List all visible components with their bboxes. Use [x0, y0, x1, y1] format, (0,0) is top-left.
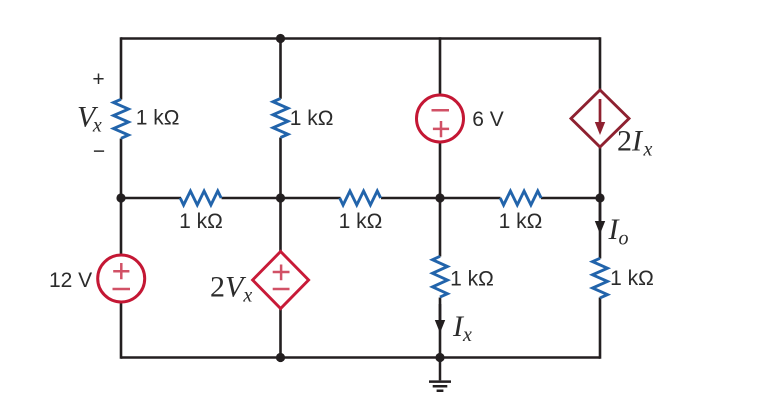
label: + inside 12 V source [113, 263, 129, 279]
wire: bottom rail [121, 356, 600, 359]
label: − inside 2Vx source [273, 288, 290, 291]
svg-text:1 kΩ: 1 kΩ [290, 107, 334, 130]
label: 1 kΩ (middle rail center resistor) [339, 210, 383, 233]
resistor 1 kΩ (middle rail center) [340, 191, 381, 205]
label: 1 kΩ (middle rail right resistor) [499, 210, 543, 233]
label: 1 kΩ (second top resistor) [290, 107, 334, 130]
label: 6 V [472, 108, 504, 131]
label: 1 kΩ (middle rail left resistor) [179, 210, 223, 233]
dependent voltage source 2Vx (diamond) [253, 252, 309, 309]
resistor 1 kΩ (Vx branch) [114, 99, 129, 138]
current arrow Ix [435, 304, 445, 333]
svg-text:1 kΩ: 1 kΩ [136, 107, 180, 130]
label: 1 kΩ (third branch lower resistor) [450, 268, 494, 291]
label: 2Ix [617, 125, 653, 161]
resistor 1 kΩ (middle rail left) [180, 191, 221, 205]
label: 1 kΩ (Vx branch resistor) [136, 107, 180, 130]
wire: left branch upper segments [120, 37, 123, 199]
label: Ix [452, 310, 472, 346]
label: − inside 12 V source [113, 288, 131, 291]
resistor 1 kΩ (middle rail right) [500, 191, 541, 205]
resistor 1 kΩ (right branch lower) [593, 258, 608, 298]
svg-text:1 kΩ: 1 kΩ [499, 210, 543, 233]
label: + polarity of Vx [92, 68, 104, 91]
voltage source 12 V (circle) [98, 255, 145, 302]
dependent current source 2Ix (diamond) [571, 90, 629, 147]
label: + inside 6 V source [433, 121, 449, 137]
svg-text:1 kΩ: 1 kΩ [179, 210, 223, 233]
svg-text:2Ix: 2Ix [617, 125, 653, 161]
svg-text:Io: Io [608, 213, 629, 250]
junction node (bottom rail, x=440) [435, 353, 444, 362]
resistor 1 kΩ (third branch lower) [433, 256, 448, 297]
current arrow Io [595, 203, 605, 234]
wire: right branch lower segments [599, 197, 602, 359]
wire: third branch lower segments [439, 197, 442, 359]
wire: right branch (x=600) upper segments [599, 37, 602, 199]
svg-text:2Vx: 2Vx [210, 271, 252, 307]
junction node (middle rail, x=280) [276, 193, 285, 202]
junction node (middle rail, x=121) [116, 193, 125, 202]
label: 12 V [49, 269, 92, 292]
junction node (bottom rail, x=280) [276, 353, 285, 362]
label: − polarity of Vx [93, 140, 105, 163]
voltage source 6 V (circle) [417, 95, 464, 142]
wire: third branch (x=440) upper segments [439, 37, 442, 199]
svg-text:12 V: 12 V [49, 269, 92, 292]
label: Vx [77, 100, 102, 136]
wire: second branch lower segments [279, 197, 282, 359]
wire: second branch (x=280) upper segments [279, 39, 282, 200]
label: 1 kΩ (right branch lower resistor) [610, 267, 654, 290]
svg-text:+: + [92, 68, 104, 91]
label: 2Vx [210, 271, 252, 307]
svg-text:1 kΩ: 1 kΩ [610, 267, 654, 290]
svg-text:1 kΩ: 1 kΩ [339, 210, 383, 233]
wire: left branch lower segments [120, 197, 123, 359]
resistor 1 kΩ (second top branch) [273, 99, 288, 138]
junction node (middle rail, x=440) [435, 193, 444, 202]
ground [429, 358, 451, 391]
wire: top rail [121, 37, 600, 40]
junction node (middle rail, x=600) [595, 193, 604, 202]
arrow inside 2Ix source [595, 99, 605, 135]
label: + inside 2Vx source [273, 265, 290, 281]
svg-text:−: − [93, 140, 105, 163]
label: − inside 6 V source [432, 109, 450, 112]
label: Io [608, 213, 629, 250]
wire: middle rail segments [121, 197, 600, 200]
svg-text:1 kΩ: 1 kΩ [450, 268, 494, 291]
svg-text:6 V: 6 V [472, 108, 504, 131]
svg-text:Vx: Vx [77, 100, 102, 136]
svg-text:Ix: Ix [452, 310, 472, 346]
junction node (top rail, x=280) [276, 34, 285, 43]
